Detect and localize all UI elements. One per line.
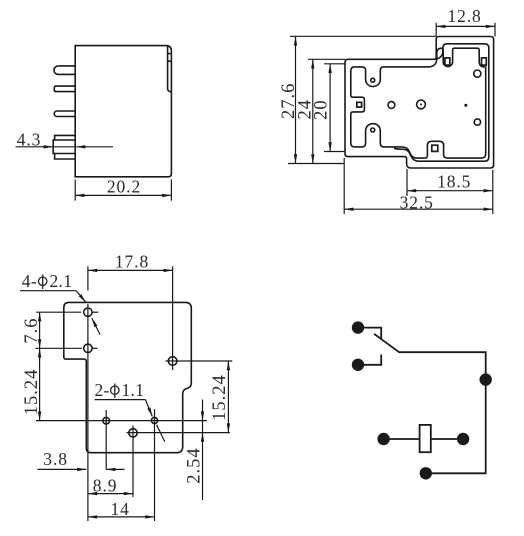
svg-text:18.5: 18.5 bbox=[437, 171, 471, 191]
svg-text:32.5: 32.5 bbox=[400, 192, 434, 212]
svg-text:15.24: 15.24 bbox=[210, 374, 230, 421]
svg-text:20.2: 20.2 bbox=[107, 177, 141, 197]
svg-text:2.1: 2.1 bbox=[50, 271, 73, 291]
svg-text:20: 20 bbox=[312, 99, 332, 120]
svg-text:4.3: 4.3 bbox=[17, 130, 42, 150]
svg-text:12.8: 12.8 bbox=[447, 6, 481, 26]
svg-text:15.24: 15.24 bbox=[22, 369, 42, 416]
svg-text:3.8: 3.8 bbox=[43, 449, 68, 469]
svg-text:2-: 2- bbox=[95, 380, 110, 400]
svg-text:8.9: 8.9 bbox=[93, 476, 118, 496]
svg-text:17.8: 17.8 bbox=[115, 252, 149, 272]
svg-text:2.54: 2.54 bbox=[185, 447, 205, 483]
svg-text:1.1: 1.1 bbox=[122, 380, 145, 400]
svg-text:14: 14 bbox=[110, 499, 129, 519]
svg-text:7.6: 7.6 bbox=[22, 318, 42, 344]
svg-text:4-: 4- bbox=[22, 271, 37, 291]
